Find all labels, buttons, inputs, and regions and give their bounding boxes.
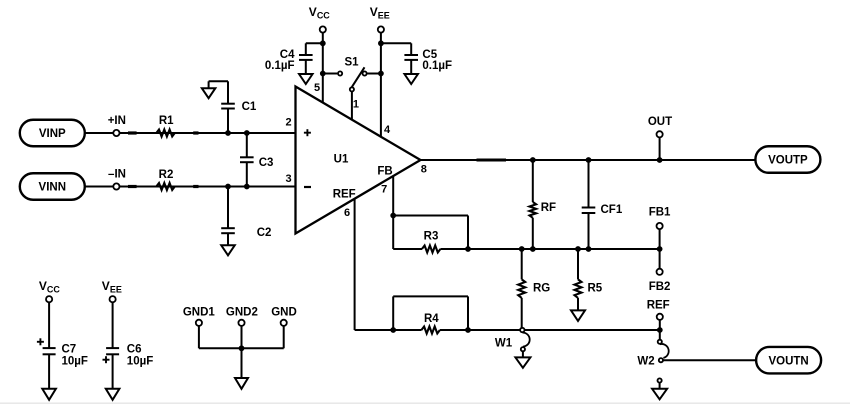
svg-text:–IN: –IN xyxy=(108,169,126,181)
svg-text:10µF: 10µF xyxy=(62,356,88,368)
svg-text:10µF: 10µF xyxy=(127,356,153,368)
svg-text:FB1: FB1 xyxy=(649,207,671,219)
svg-text:4: 4 xyxy=(384,124,391,136)
svg-text:RG: RG xyxy=(533,283,550,295)
svg-text:REF: REF xyxy=(647,300,670,312)
svg-text:R4: R4 xyxy=(424,313,439,325)
svg-text:U1: U1 xyxy=(334,154,349,166)
svg-text:5: 5 xyxy=(314,82,320,94)
svg-text:FB: FB xyxy=(377,165,392,177)
svg-text:C7: C7 xyxy=(62,343,77,355)
svg-text:S1: S1 xyxy=(344,57,359,69)
svg-text:W1: W1 xyxy=(495,338,513,350)
svg-text:+IN: +IN xyxy=(108,115,126,127)
svg-text:VINN: VINN xyxy=(39,182,66,194)
svg-text:8: 8 xyxy=(421,164,427,176)
svg-text:6: 6 xyxy=(344,207,350,219)
svg-text:FB2: FB2 xyxy=(649,281,671,293)
svg-text:R5: R5 xyxy=(588,283,603,295)
svg-text:GND1: GND1 xyxy=(183,306,216,318)
svg-text:R3: R3 xyxy=(424,231,439,243)
svg-text:RF: RF xyxy=(541,202,556,214)
svg-text:REF: REF xyxy=(333,188,356,200)
svg-text:VOUTN: VOUTN xyxy=(768,355,808,367)
svg-text:3: 3 xyxy=(285,173,291,185)
svg-text:VOUTP: VOUTP xyxy=(768,155,808,167)
svg-text:R2: R2 xyxy=(159,169,174,181)
svg-text:0.1µF: 0.1µF xyxy=(265,60,295,72)
svg-text:7: 7 xyxy=(381,183,387,195)
svg-text:OUT: OUT xyxy=(648,116,672,128)
svg-text:GND2: GND2 xyxy=(226,306,258,318)
svg-text:C1: C1 xyxy=(242,101,257,113)
svg-text:GND: GND xyxy=(271,306,297,318)
svg-text:W2: W2 xyxy=(637,355,654,367)
svg-text:VINP: VINP xyxy=(39,128,66,140)
svg-text:2: 2 xyxy=(285,117,291,129)
svg-text:R1: R1 xyxy=(159,115,174,127)
svg-text:C2: C2 xyxy=(257,227,272,239)
svg-text:CF1: CF1 xyxy=(601,204,623,216)
svg-text:1: 1 xyxy=(353,99,359,111)
svg-text:0.1µF: 0.1µF xyxy=(422,60,452,72)
svg-text:C6: C6 xyxy=(127,343,142,355)
svg-text:C3: C3 xyxy=(259,157,274,169)
